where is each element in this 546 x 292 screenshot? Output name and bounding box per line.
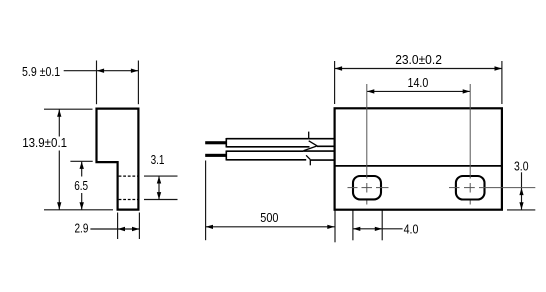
svg-text:500: 500 xyxy=(260,210,278,225)
svg-text:13.9±0.1: 13.9±0.1 xyxy=(22,135,67,150)
svg-text:3.1: 3.1 xyxy=(151,152,165,167)
svg-text:14.0: 14.0 xyxy=(408,75,429,90)
svg-text:23.0±0.2: 23.0±0.2 xyxy=(395,52,442,67)
svg-text:2.9: 2.9 xyxy=(75,220,89,235)
svg-text:4.0: 4.0 xyxy=(404,221,419,236)
svg-text:6.5: 6.5 xyxy=(74,178,88,193)
svg-text:3.0: 3.0 xyxy=(514,158,529,173)
svg-text:5.9 ±0.1: 5.9 ±0.1 xyxy=(22,64,60,79)
